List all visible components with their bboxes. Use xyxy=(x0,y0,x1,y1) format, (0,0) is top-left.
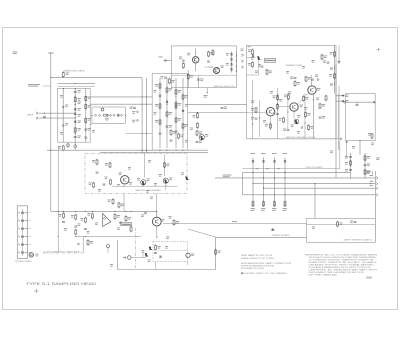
label near title block left xyxy=(110,264,113,267)
wire bus y236.5 xyxy=(76,236,141,238)
label R5 xyxy=(78,128,81,131)
svg-text:CENTERED. ALL READINGS MAY VAR: CENTERED. ALL READINGS MAY VARY WITH xyxy=(309,269,378,272)
label C65 xyxy=(345,156,348,159)
resistor R65 xyxy=(350,160,352,166)
transistor Q26 dark xyxy=(164,179,168,183)
diode D33 snap-off xyxy=(230,64,232,66)
wire osc column 2 xyxy=(166,78,168,148)
diode D30 xyxy=(252,55,254,57)
capacitor C42 xyxy=(74,226,77,227)
wire gate lower stub B xyxy=(74,142,76,150)
capacitor C52 xyxy=(319,117,322,118)
wire bottom cluster stub xyxy=(142,252,144,258)
resistor R17 box2 xyxy=(266,69,268,75)
blocking oscillator box xyxy=(152,74,187,151)
terminal circle left xyxy=(344,101,346,103)
wire q55 q45 link xyxy=(297,93,308,105)
node box2 j2 xyxy=(334,67,335,68)
diode D34 snap-off xyxy=(230,69,232,71)
wire q35 drop xyxy=(269,116,271,130)
resistor R37 xyxy=(305,76,307,82)
node bus104 j2 xyxy=(146,104,147,105)
node railA j3 xyxy=(142,133,143,134)
label C66 xyxy=(345,169,348,172)
wire gate drop x58 xyxy=(57,146,59,253)
wire gate feed third xyxy=(58,85,95,87)
wire memory top line xyxy=(346,101,376,103)
label R51 xyxy=(310,126,313,129)
node control out1 xyxy=(335,95,336,96)
node rail2 dot xyxy=(370,183,371,184)
label C80 xyxy=(350,221,353,224)
wire q13 collector xyxy=(195,49,197,57)
strip pin 4 xyxy=(21,236,23,238)
node bus236 j1 xyxy=(75,236,76,237)
wire main rail vertical xyxy=(50,53,52,211)
node osc j3 xyxy=(175,96,176,97)
node delay edges xyxy=(91,115,92,116)
capacitor C13 xyxy=(182,60,185,61)
capacitor C31 xyxy=(164,77,167,78)
label C67 xyxy=(367,164,370,167)
label out2 xyxy=(346,100,349,103)
node grid j10 xyxy=(284,194,285,195)
svg-text:(TRIG PICKOFF AMP): (TRIG PICKOFF AMP) xyxy=(306,166,323,169)
label grid row mid 2 xyxy=(266,167,269,170)
label scatter 10 xyxy=(255,71,258,74)
timing board box xyxy=(307,218,376,242)
diode D1 gate xyxy=(62,106,64,108)
resistor R94 coax xyxy=(87,239,89,245)
wire reg feed xyxy=(247,57,256,59)
node INPUT terminal xyxy=(36,112,38,119)
capacitor C86 xyxy=(154,253,157,254)
strip pin 6 number xyxy=(18,251,20,254)
label OUT3 xyxy=(370,184,374,187)
label Q14 xyxy=(221,66,224,69)
label C19 xyxy=(323,61,326,64)
terminal circle on control bottom xyxy=(340,138,342,140)
wire lamp stub xyxy=(187,262,189,265)
wire osc column 4 xyxy=(182,78,184,148)
node rail150 j3 xyxy=(175,150,176,151)
label R58 xyxy=(180,135,183,138)
node gate c j4 xyxy=(75,104,76,105)
resistor R49 xyxy=(303,95,305,101)
label R61 xyxy=(368,133,371,136)
capacitor C32 box1 xyxy=(197,79,200,80)
label C34 xyxy=(224,107,227,110)
wire control col x305 xyxy=(304,93,306,139)
label column bottom 4 xyxy=(283,208,288,211)
capacitor C80 timing xyxy=(354,222,357,223)
resistor R55a in assembly xyxy=(96,159,98,165)
label control extra4 xyxy=(279,99,282,102)
label scatter 8 xyxy=(60,132,63,135)
strip pin 1 number xyxy=(18,211,20,214)
label out1 xyxy=(346,95,349,98)
capacitor C3 xyxy=(74,92,77,93)
label scatter 20 xyxy=(165,246,168,249)
label R90 xyxy=(217,251,220,254)
svg-text:SAMPLING GATE: SAMPLING GATE xyxy=(64,70,86,73)
label R50 xyxy=(307,113,310,116)
revision cross mark xyxy=(34,289,39,293)
transistor Q30 dark xyxy=(257,56,261,60)
diode D44 xyxy=(103,217,105,219)
wire control bottom edge xyxy=(247,138,339,140)
label REGULATOR boxed xyxy=(264,59,275,63)
resistor R21 xyxy=(159,83,161,89)
label R47 xyxy=(128,217,131,220)
capacitor C55 xyxy=(96,172,99,173)
label scatter 14 xyxy=(297,131,300,134)
label C25 xyxy=(169,125,172,128)
resistor R13 xyxy=(182,62,184,68)
label R39 xyxy=(265,124,268,127)
resistor R53 xyxy=(325,95,327,101)
label C85 above xyxy=(166,237,169,240)
wire control col x252 xyxy=(252,80,254,139)
label gate col extra4 xyxy=(65,123,68,126)
svg-text:WITH BLANKING PULSE: WITH BLANKING PULSE xyxy=(241,265,275,268)
wire right trunk vertical xyxy=(374,171,376,242)
label grid row mid 3 xyxy=(277,167,280,170)
capacitor C38 xyxy=(330,68,333,69)
resistor R35b hang xyxy=(196,122,198,128)
svg-text:VOLTAGES MEASURED WITH VERT PO: VOLTAGES MEASURED WITH VERT POSITION xyxy=(309,266,372,269)
resistor R71 column bottom xyxy=(263,201,265,207)
wire bus y97 xyxy=(90,96,152,98)
resistor R80 in timing box xyxy=(337,221,339,227)
node grid j9 xyxy=(263,194,264,195)
resistor R23b assembly xyxy=(110,179,112,185)
transistor Q85 dark xyxy=(149,246,153,250)
wire box2 internal v1 xyxy=(257,60,259,76)
label scatter 11 xyxy=(302,66,305,69)
strip pin 2 stub xyxy=(28,220,31,222)
diode D3 xyxy=(74,109,76,111)
resistor R27 xyxy=(175,117,177,123)
wire box1 inner h xyxy=(204,66,213,68)
wire into timing y237.5 xyxy=(216,236,307,238)
wire snap ladder left xyxy=(231,52,233,73)
wire timing drop x315 xyxy=(314,184,316,219)
amplifier triangle xyxy=(103,214,111,227)
wire control col x287 xyxy=(287,93,289,129)
label R34 xyxy=(193,115,196,118)
strip pin 1 stub xyxy=(28,212,31,214)
label D37 xyxy=(315,75,318,78)
resistor R12 horizontal xyxy=(104,114,108,116)
svg-text:SAMPLING GATE PULSE: SAMPLING GATE PULSE xyxy=(214,85,236,88)
capacitor C54 xyxy=(255,118,258,119)
wire lower into diagonal y229 xyxy=(188,229,216,237)
wire grid bracket vertical xyxy=(242,173,244,195)
label scatter 21 xyxy=(352,146,355,149)
node grid j2 xyxy=(263,188,264,189)
resistor R31 xyxy=(169,78,171,84)
transformer T1 xyxy=(175,102,177,109)
label R62 below box xyxy=(371,143,374,146)
wire interstage line y104.6 xyxy=(188,104,247,106)
label R36 xyxy=(297,82,300,85)
diode D50 xyxy=(301,126,303,128)
node rail150 main junction xyxy=(50,150,51,151)
label gate col extra2 xyxy=(78,114,81,117)
label R60 xyxy=(166,164,169,167)
label R41 xyxy=(59,214,62,217)
label R26 xyxy=(178,90,181,93)
resistor R23 xyxy=(159,119,161,125)
label scatter 19 xyxy=(98,189,101,192)
capacitor C59 xyxy=(196,142,199,143)
label R22 xyxy=(155,104,158,107)
resistor R85 xyxy=(155,244,157,250)
resistor R46L lower-left xyxy=(118,202,120,208)
svg-text:REFERENCE: ALL DC VOLTAGE READ: REFERENCE: ALL DC VOLTAGE READINGS TAKEN xyxy=(305,253,378,256)
label R68 xyxy=(367,171,370,174)
label Q86 xyxy=(142,250,145,253)
label lower extra5 xyxy=(87,231,90,234)
transistor Q25 dark xyxy=(142,181,146,185)
label R48 xyxy=(279,118,282,121)
label bracket right xyxy=(365,171,372,174)
label C13 xyxy=(179,57,182,60)
transistor Q13 xyxy=(193,57,199,63)
wire snap output stub xyxy=(206,88,208,93)
label R37 xyxy=(308,77,311,80)
strip pin 6 xyxy=(21,252,23,254)
wire rail OUT3 y188.2 xyxy=(264,187,376,189)
label OUT1 xyxy=(370,174,374,177)
label R64 value xyxy=(169,216,172,219)
label R7 xyxy=(88,97,91,100)
resistor R45L lower-left xyxy=(112,198,114,204)
node control j1 xyxy=(313,99,314,100)
strip pin 2 xyxy=(21,220,23,222)
node cluster j1 xyxy=(350,177,351,178)
wire memory column 1 xyxy=(252,158,254,207)
label R45 xyxy=(273,96,276,99)
node bus104 j1 xyxy=(142,104,143,105)
capacitor C8 xyxy=(84,129,87,130)
resistor R67 xyxy=(364,155,366,161)
resistor R9 gate right xyxy=(85,103,87,109)
delay line box xyxy=(92,107,126,123)
label R46L xyxy=(121,204,124,207)
capacitor C43 xyxy=(84,229,87,230)
label scatter 9 xyxy=(251,57,254,60)
resistor R42b xyxy=(75,229,77,235)
resistor R15 xyxy=(212,49,214,55)
label C52 xyxy=(322,116,325,119)
label R35b xyxy=(190,128,193,131)
capacitor C9 strobe xyxy=(67,144,70,147)
arrow into memory 2 xyxy=(341,100,344,102)
transistor Q64 output xyxy=(152,217,161,226)
trigger pickoff sub-box bottom xyxy=(243,168,340,170)
dash-dot assembly enclosure xyxy=(85,153,187,193)
wire q55 collector xyxy=(310,80,312,87)
resistor R38 xyxy=(334,73,336,79)
label scatter 5 xyxy=(148,160,151,163)
assembly left parts xyxy=(93,182,95,188)
dashed trigger box xyxy=(153,242,188,262)
note diamond mark xyxy=(241,272,243,274)
svg-text:(SEE TIMING DIAG): (SEE TIMING DIAG) xyxy=(344,239,373,242)
dash-dot coax enclosure line xyxy=(43,252,83,254)
transistor Q14 xyxy=(214,68,220,74)
diode D37 xyxy=(317,78,319,80)
svg-text:INSTRUMENT. SEE CALIBRATION SE: INSTRUMENT. SEE CALIBRATION SECTION xyxy=(309,271,365,274)
strip pin 1 name xyxy=(25,211,27,214)
wire control right edge xyxy=(338,86,340,139)
wire q64 top feed xyxy=(156,211,158,217)
label R45L xyxy=(108,200,111,203)
label lower cluster extra1 xyxy=(64,228,67,231)
label C32 xyxy=(200,79,203,82)
label R44b xyxy=(284,95,287,98)
wire riser x215.6 xyxy=(215,237,217,269)
label R23b xyxy=(105,177,108,180)
resistor R64 xyxy=(173,219,175,225)
diode D18 xyxy=(136,119,138,121)
label R29 xyxy=(185,124,188,127)
label C51 xyxy=(283,129,286,132)
node rail ticks y150 xyxy=(166,150,167,151)
strip pin 4 name xyxy=(25,235,27,238)
resistor R48 xyxy=(283,117,285,123)
label scatter 16 xyxy=(263,120,266,123)
capacitor C39 xyxy=(330,84,333,85)
label scatter 6 xyxy=(92,130,95,133)
diode D15 xyxy=(120,114,122,116)
label C31 xyxy=(161,76,164,79)
wire interstage line y112.5 xyxy=(188,112,247,114)
label +12.2 net xyxy=(376,158,380,161)
resistor R19 right edge xyxy=(334,51,336,57)
resistor R8 xyxy=(85,117,87,123)
diode D28 xyxy=(182,110,184,112)
wire gate inner column A xyxy=(62,88,64,142)
capacitor C16 xyxy=(133,107,136,108)
label Q23 xyxy=(205,134,208,137)
label Q45 xyxy=(300,105,303,108)
strip pin 2 name xyxy=(25,219,27,222)
label C63 xyxy=(141,215,144,218)
label R56 xyxy=(105,163,108,166)
label lower extra4 xyxy=(78,224,81,227)
wire gate lower stub A xyxy=(67,142,69,148)
label C46 xyxy=(273,113,276,116)
diode D93 coax xyxy=(77,243,79,245)
capacitor C23 xyxy=(159,133,162,134)
node cluster j2 xyxy=(364,177,365,178)
label R19 xyxy=(330,52,333,55)
label scatter 4 xyxy=(185,140,188,143)
strip pin 3 stub xyxy=(28,228,31,230)
wire bus y211.4 xyxy=(51,210,157,212)
label D31 xyxy=(226,53,229,56)
resistor R72 column bottom xyxy=(274,201,276,207)
node snap output dot xyxy=(207,92,208,93)
label trigger input xyxy=(159,56,163,59)
lamp B87 circle xyxy=(186,253,190,257)
diode D12 xyxy=(98,114,100,116)
wire timing inner line xyxy=(307,224,376,226)
label R10 xyxy=(58,146,61,149)
capacitor C19 box2 right xyxy=(327,62,330,63)
label R31 xyxy=(171,80,174,83)
resistor R4 xyxy=(74,96,76,102)
label R23 xyxy=(155,120,158,123)
wire bus y104 xyxy=(90,103,152,105)
node grid j4 xyxy=(284,177,285,178)
wire osc column 1 xyxy=(159,78,161,148)
node input junction xyxy=(44,113,45,114)
boxed label GAIN xyxy=(121,223,132,226)
node gate feed j1 xyxy=(75,83,76,84)
label inside delay line xyxy=(105,118,109,121)
capacitor C65 xyxy=(349,157,352,158)
transistor Q45 xyxy=(290,103,298,111)
arrow into memory 1 xyxy=(341,95,344,97)
diode D17 xyxy=(136,111,138,113)
diode D70 column top xyxy=(252,161,254,163)
label D3 xyxy=(78,108,81,111)
wire trigger drop A xyxy=(155,262,157,270)
wire memory column 4 xyxy=(284,158,286,207)
bracket curly xyxy=(371,172,374,175)
wire gate feed upper xyxy=(51,76,142,78)
label C59 xyxy=(199,141,202,144)
box1 inner partition line xyxy=(171,74,236,76)
label Q24 xyxy=(119,173,122,176)
label control extra2 xyxy=(297,115,300,118)
label B87 xyxy=(191,254,194,257)
diode D24 xyxy=(166,101,168,103)
ground chassis top-right xyxy=(338,45,340,59)
terminal OUT4 xyxy=(376,194,378,197)
resistor R22 xyxy=(159,103,161,109)
wire rail OUT4 y194.8 xyxy=(243,194,376,196)
label D18 xyxy=(132,120,135,123)
label bottom cluster extra xyxy=(148,260,151,263)
capacitor C10 strobe xyxy=(74,145,77,148)
arrow to neon xyxy=(123,257,126,259)
diode D31 snap-off xyxy=(230,54,232,56)
label scatter 3 xyxy=(185,104,188,107)
top-right plus mark xyxy=(377,48,381,51)
trigger pickoff sub-box right edge xyxy=(339,141,341,169)
diode D13 xyxy=(109,114,111,116)
resistor R73 column bottom xyxy=(284,201,286,207)
label scatter 2 xyxy=(154,112,157,115)
wire bottom bus y269.5 xyxy=(118,269,216,271)
svg-text:TIMING BOARD: TIMING BOARD xyxy=(272,234,291,237)
transistor Q35 xyxy=(266,108,274,116)
label R52 xyxy=(322,104,325,107)
circle around Q26 xyxy=(163,178,168,183)
memory box xyxy=(346,94,376,141)
strip pin 3 xyxy=(21,228,23,230)
wire C95 stub xyxy=(107,248,109,254)
strip pin 5 number xyxy=(18,243,20,246)
neon lamp B88 xyxy=(128,256,132,260)
wire q14 link xyxy=(209,66,214,68)
strip pin 3 number xyxy=(18,227,20,230)
